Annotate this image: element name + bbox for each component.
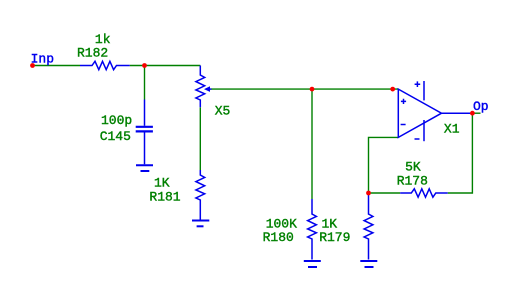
junction node feedback [366,191,371,196]
resistor R182 [80,61,130,69]
wire R182 to pot corner [130,65,201,67]
op-amp X1 minus input marker [401,124,406,126]
wire node to C145 [144,66,146,100]
junction node R182/C145 [142,63,147,68]
resistor R181 [196,170,205,220]
wire pot bottom to R181 [199,107,201,170]
wire output stub [472,112,480,114]
svg-text:1K: 1K [154,176,170,191]
resistor R180 [308,199,317,260]
op-amp X1 output lead [442,112,473,114]
ground under C145 [136,164,153,166]
svg-text:Op: Op [473,99,489,114]
node Inp dot [30,63,35,68]
svg-text:Inp: Inp [31,52,54,67]
junction node R180 [310,87,315,92]
op-amp U X1 body [398,89,441,137]
node Op dot [470,111,475,116]
svg-text:R181: R181 [149,190,180,205]
capacitor C145 [144,100,146,126]
wire R178 to output node [448,113,473,193]
svg-text:R182: R182 [77,46,108,61]
junction node op-amp + input [390,87,395,92]
op-amp X1 plus input marker [401,99,406,104]
potentiometer X5 [196,66,205,108]
svg-text:100p: 100p [101,113,132,128]
ground under R181 [192,220,209,222]
op-amp X1 negative supply pin [423,120,425,141]
wire op-amp - input to feedback node [369,137,399,193]
svg-text:X5: X5 [215,104,231,119]
svg-text:C145: C145 [100,129,131,144]
ground under R180 [304,260,321,262]
svg-text:R180: R180 [263,230,294,245]
resistor R179 [364,193,373,260]
wire Inp to R182 [33,65,80,67]
svg-text:5K: 5K [405,160,421,175]
svg-text:R179: R179 [319,230,350,245]
wire wiper to op-amp + input [211,88,398,90]
wire node to R178 [369,192,401,194]
op-amp X1 minus supply marker [415,138,420,140]
resistor R178 [400,189,448,197]
svg-text:R178: R178 [397,174,428,189]
ground under R179 [360,260,377,262]
wire node down to R180 [311,89,313,199]
op-amp X1 plus supply marker [415,81,421,87]
op-amp X1 positive supply pin [423,81,425,100]
svg-text:X1: X1 [444,122,460,137]
